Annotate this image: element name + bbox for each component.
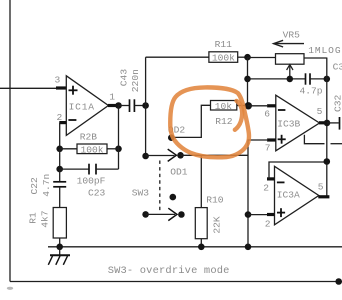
svg-text:5: 5: [317, 106, 323, 117]
wire: to R11: [146, 56, 209, 58]
capacitor C32 at IC3B output: [327, 122, 339, 124]
switch SW3 mechanical dashed link: [159, 161, 161, 212]
svg-text:100k: 100k: [212, 53, 235, 64]
svg-text:R11: R11: [215, 39, 233, 50]
svg-text:C23: C23: [88, 187, 106, 198]
node: ground junction: [56, 244, 63, 251]
wire: R12 right lead: [237, 105, 248, 107]
svg-text:7: 7: [265, 143, 271, 154]
svg-text:6: 6: [264, 109, 270, 120]
node: IC3A feedback junction: [324, 158, 331, 165]
svg-text:C32: C32: [332, 94, 342, 112]
svg-text:100pF: 100pF: [77, 175, 106, 186]
IC3B polarity marks: [278, 110, 286, 144]
capacitor 4.7p: [305, 73, 307, 84]
wire: IC3A feedback from pin 2 up and over to output column: [269, 162, 327, 179]
IC1A polarity marks: [68, 86, 77, 120]
wire: pin2 down to R2B node: [59, 123, 61, 149]
svg-text:R10: R10: [206, 194, 224, 205]
op-amp IC3B: [276, 95, 320, 151]
VR5 rotation arrow: [274, 43, 304, 45]
capacitor C22 4.7n: [59, 169, 61, 181]
wire: crossing net from IC3B body to right edge (hops over output column): [304, 135, 324, 144]
svg-text:SW3- overdrive mode: SW3- overdrive mode: [108, 265, 230, 277]
smudge bottom-left: [7, 287, 13, 290]
node: SW3 upper throw (to D2/R12): [168, 134, 175, 141]
svg-text:4k7: 4k7: [40, 211, 51, 228]
svg-text:IC1A: IC1A: [69, 102, 95, 113]
wire: vertical from R11 line down to SW3 pole B: [145, 57, 147, 156]
switch SW3 pole B common: [142, 153, 149, 160]
svg-text:220n: 220n: [130, 69, 141, 92]
op-amp IC3A: [275, 166, 319, 225]
wire: left vertical bus from top edge to bottom-left corner: [9, 0, 11, 282]
svg-text:IC3A: IC3A: [277, 189, 300, 200]
node on bottom bus near right edge: [335, 278, 342, 285]
potentiometer VR5: [276, 54, 305, 64]
node: IC3A pin2+ junction: [245, 211, 252, 218]
pin 3 stub of IC1A: [56, 86, 66, 89]
node: 4.7p right junction: [324, 76, 331, 83]
node: SW3 lower pole upper throw (n.c.): [170, 194, 177, 201]
svg-text:2: 2: [265, 218, 271, 229]
op-amp IC1A: [66, 76, 108, 136]
switch SW3 pole C: [142, 211, 149, 218]
pin 2 stub of IC1A: [59, 121, 66, 124]
wire: vertical node column x=247.5: [247, 57, 249, 106]
svg-text:R12: R12: [215, 116, 233, 127]
IC3A polarity marks: [277, 182, 285, 217]
svg-text:R1: R1: [28, 212, 39, 224]
capacitor C43 220n: [119, 105, 130, 107]
svg-text:22K: 22K: [212, 216, 223, 234]
svg-text:VR5: VR5: [283, 30, 301, 41]
svg-text:2: 2: [263, 182, 269, 193]
resistor R12: [211, 101, 237, 111]
node: IC1A output: [115, 102, 122, 109]
wire: IC1A output column down: [118, 106, 120, 170]
IC3A output stub: [318, 195, 329, 198]
node: R10 bottom junction: [198, 244, 205, 251]
resistor R10: [200, 155, 202, 207]
node: R11 right: [244, 54, 251, 61]
capacitor C23 100pF: [59, 149, 61, 169]
svg-text:3: 3: [55, 74, 61, 85]
wire: input line to IC1A pin 3: [0, 87, 56, 89]
svg-text:OD1: OD1: [170, 167, 188, 178]
svg-text:C43: C43: [119, 69, 130, 87]
IC3B output stub: [319, 121, 327, 124]
svg-text:SW3: SW3: [132, 187, 150, 198]
wire: to IC3B pin 6: [248, 105, 268, 107]
svg-text:4.7p: 4.7p: [300, 85, 323, 96]
wire: to VR5 left: [248, 57, 276, 59]
ground rail: [48, 246, 342, 248]
svg-text:R2B: R2B: [80, 131, 98, 142]
wire: SW3 pole B to IC3B+/R10 column: [181, 154, 249, 156]
node: C43 right: [142, 102, 149, 109]
svg-text:10k: 10k: [215, 101, 233, 112]
pin 1 output stub of IC1A: [108, 104, 119, 107]
node: bias column junction: [245, 244, 252, 251]
node: wiper junction: [287, 76, 294, 83]
VR5 wiper arrow: [289, 66, 291, 79]
resistor R11: [209, 52, 238, 63]
svg-text:5: 5: [318, 181, 324, 192]
resistor R1: [53, 208, 66, 239]
wire: R12 left lead down to D2 throw: [171, 105, 210, 137]
node: IC3B output junction: [324, 120, 331, 127]
node: R12/IC3B pin6 junction: [245, 102, 252, 109]
svg-text:4.7n: 4.7n: [41, 174, 52, 197]
wire: IC3A+ to column: [248, 214, 267, 216]
resistor R2B: [56, 146, 63, 153]
svg-text:C22: C22: [29, 177, 40, 195]
svg-text:100k: 100k: [81, 144, 104, 155]
svg-text:IC3B: IC3B: [277, 118, 300, 129]
wire: VR5 right to output column: [304, 57, 327, 59]
svg-text:1MLOG: 1MLOG: [308, 45, 341, 56]
svg-text:1: 1: [109, 92, 115, 103]
ground symbol: [59, 247, 61, 255]
svg-text:C31: C31: [333, 61, 342, 72]
wire: bottom horizontal bus to right edge: [10, 281, 342, 283]
wire: IC3B+ node column down to rail: [248, 140, 267, 247]
wire: right output column: [326, 58, 328, 198]
annotation: orange hand-drawn loop around R12: [170, 87, 249, 157]
wire: wiper row with capacitor 4.7p: [248, 78, 306, 80]
